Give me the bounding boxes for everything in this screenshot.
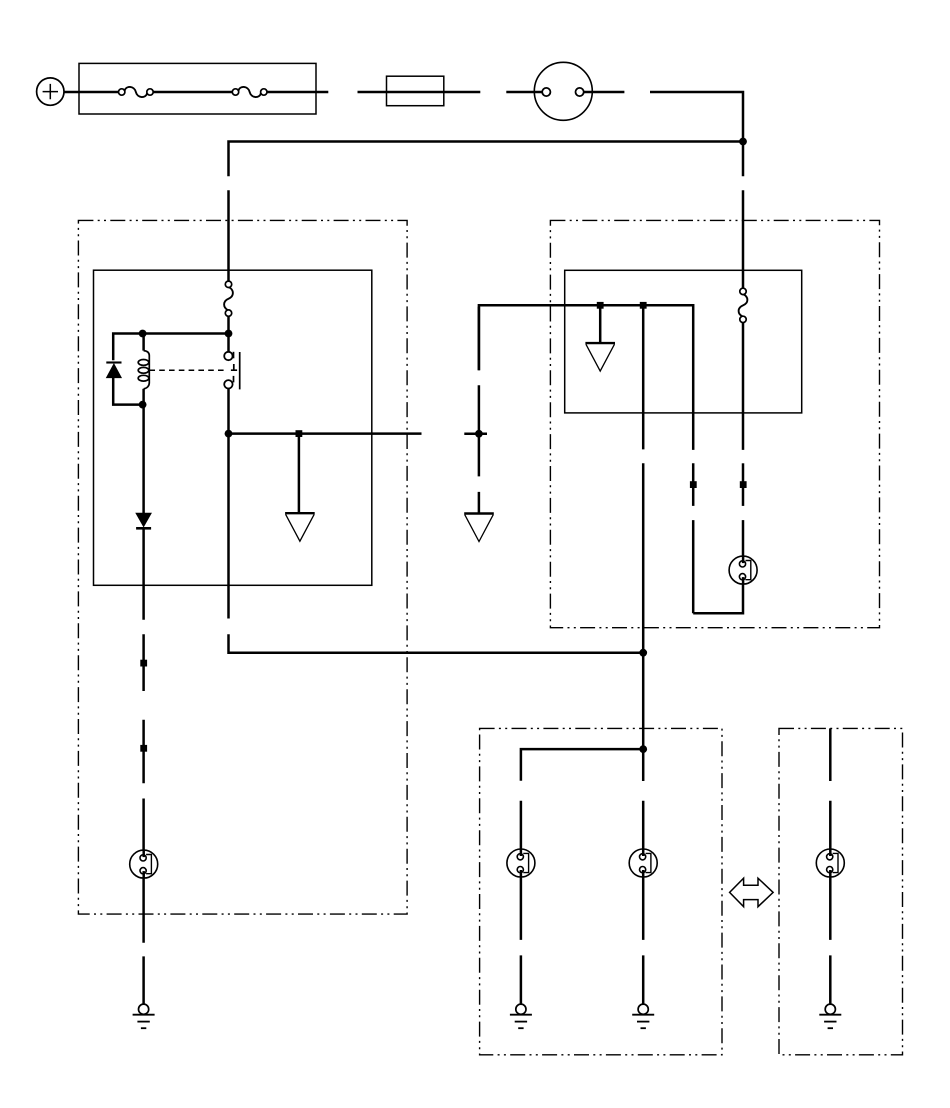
component outline: lighting control unit (dashed) [78, 220, 407, 914]
wire: lamp L1 to return corner [693, 585, 743, 614]
wire: to circuit breaker [227, 190, 230, 281]
lamp L2 (door switch front) [507, 849, 535, 877]
lamp L1 (interior light) [729, 556, 757, 584]
ground E2 (earth) [632, 1004, 654, 1028]
relay K1 switch contacts [224, 352, 240, 390]
ignition switch SW1 [534, 62, 592, 120]
connector junction SQ4 [740, 481, 747, 488]
wire: to fusible link [358, 91, 387, 94]
wire: relay output bus right [229, 432, 422, 435]
wire: to node A corner [650, 92, 743, 142]
wire: lamp L1 feed [742, 463, 745, 506]
wire: tailgate switch branch [829, 728, 832, 1004]
wire: relay top bus and diode D1 branch [113, 334, 228, 361]
relay K1 actuator link (dashed) [149, 369, 227, 371]
lamp L3 (door switch rear) [629, 849, 657, 877]
junction J2 [225, 330, 233, 338]
wire: dashed continuation to node B [464, 433, 487, 436]
junction J1 node A [739, 138, 747, 146]
wire: relay node to switch top contact [227, 334, 230, 352]
junction J8 [639, 745, 647, 753]
ground E3 (earth) [819, 1004, 841, 1028]
ground symbol G2 (triangle) [464, 514, 494, 542]
lamp L4 (tailgate switch) [816, 849, 844, 877]
junction J5 [225, 430, 233, 438]
wire: left door switch branch [520, 801, 523, 1005]
fuse F4 [739, 288, 748, 322]
ground symbol G3 (triangle) [585, 343, 615, 371]
fuse F1 [119, 87, 154, 97]
wire: node A down to fuse F4 [742, 142, 745, 289]
wire: fuse F1 to fuse F2 [153, 91, 232, 94]
equivalence arrow symbol [730, 878, 774, 907]
wire: return branch up [692, 463, 695, 613]
wire: fusible link to break [444, 91, 480, 94]
junction J6 node B [475, 430, 483, 438]
wire: ignition switch output [584, 91, 625, 94]
connector junction SQ5 [690, 481, 697, 488]
wire: fuse F4 down to connector [742, 323, 745, 450]
diode D2 (pointing down) [136, 513, 151, 528]
connector junction SQ7 [140, 745, 147, 752]
junction J3 [139, 330, 147, 338]
relay K1 coil [138, 334, 149, 405]
wire: breaker to relay node [227, 316, 230, 333]
battery B1 positive terminal [37, 78, 64, 105]
ground symbol G1 (triangle) [285, 513, 315, 541]
wire: coil output down [142, 405, 145, 513]
component outline: door switches (dashed) [480, 728, 722, 1054]
wire: to lamp L1 [742, 520, 745, 556]
wire: top bus to right unit [479, 305, 693, 450]
connector junction SQ3 [640, 302, 647, 309]
fuse F3 (circuit breaker) [224, 281, 233, 316]
wire: relay switch output [227, 388, 230, 433]
wire: node to left door switch [521, 749, 643, 781]
wire: fuse F2 to break [267, 91, 328, 94]
right unit box outline [565, 270, 802, 413]
wire: node C to door switch box [642, 653, 645, 749]
junction J7 node C [639, 649, 647, 657]
wire: ground branch in relay box [298, 434, 301, 514]
wire: diode D2 down with connectors [142, 530, 145, 851]
wire: battery to fuse F1 [64, 91, 118, 94]
wire: to ignition switch [506, 91, 542, 94]
ground E4 (earth) [133, 1004, 155, 1028]
wire: node B down to ground [478, 434, 481, 514]
component outline: interior light assembly (dashed) [550, 220, 879, 627]
fusible link FL1 [387, 76, 445, 106]
wire: diode D1 to relay bottom bus [113, 378, 143, 405]
connector junction SQ1 [296, 430, 303, 437]
connector junction SQ6 [140, 660, 147, 667]
relay unit box outline [94, 270, 372, 585]
ground E1 (earth) [510, 1004, 532, 1028]
connector junction SQ2 [597, 302, 604, 309]
wire: ground branch in right unit [599, 305, 602, 343]
fuse box outline [79, 63, 316, 114]
wire: lamp L5 to ground [142, 878, 145, 1004]
fuse F2 [232, 87, 267, 97]
wire: node B up to top bus [478, 307, 481, 434]
junction J4 [139, 401, 147, 409]
wire: node A branch left [229, 142, 744, 177]
wire: door-switch feed down [642, 305, 645, 652]
wire: crossover from relay to node C [229, 434, 644, 653]
lamp L5 (key light) [130, 850, 158, 878]
diode D1 (flyback, pointing up) [106, 363, 121, 378]
wire: right door switch branch [642, 749, 645, 1004]
component outline: tailgate switch (dashed) [779, 728, 903, 1054]
